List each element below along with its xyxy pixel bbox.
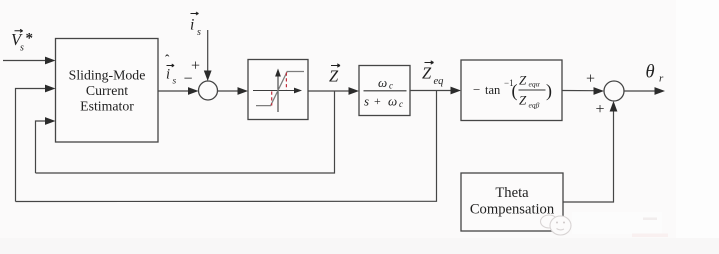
svg-text:Current: Current	[86, 83, 128, 98]
svg-text:r: r	[659, 73, 664, 85]
svg-text:s: s	[197, 27, 201, 38]
svg-text:−: −	[184, 71, 193, 88]
svg-text:eq: eq	[434, 76, 444, 87]
svg-text:Z: Z	[422, 64, 432, 83]
svg-text:tan: tan	[485, 83, 501, 97]
svg-text:s: s	[20, 43, 24, 54]
svg-text:i: i	[190, 17, 194, 34]
svg-text:s: s	[364, 94, 369, 109]
svg-text:c: c	[399, 99, 403, 109]
svg-text:+: +	[586, 71, 595, 88]
svg-text:Theta: Theta	[495, 185, 529, 201]
svg-text:Estimator: Estimator	[80, 99, 134, 114]
svg-text:(: (	[512, 81, 518, 102]
svg-text:): )	[546, 81, 552, 102]
svg-text:eqα: eqα	[529, 80, 541, 89]
svg-text:c: c	[389, 81, 393, 91]
svg-text:ˆ: ˆ	[165, 52, 170, 67]
svg-text:eqβ: eqβ	[529, 101, 540, 110]
svg-text:Z: Z	[519, 73, 527, 88]
svg-text:+: +	[374, 94, 381, 108]
svg-text:+: +	[596, 101, 605, 118]
svg-text:Z: Z	[519, 93, 527, 108]
svg-text:Compensation: Compensation	[470, 202, 555, 218]
svg-text:ω: ω	[378, 75, 387, 90]
svg-text:−: −	[473, 82, 480, 97]
svg-text:i: i	[166, 67, 170, 83]
svg-text:Z: Z	[329, 67, 339, 86]
svg-text:Sliding-Mode: Sliding-Mode	[69, 68, 146, 83]
svg-text:ω: ω	[388, 94, 397, 109]
svg-text:s: s	[173, 77, 177, 87]
svg-text:θ: θ	[646, 63, 655, 83]
svg-text:*: *	[26, 31, 34, 47]
